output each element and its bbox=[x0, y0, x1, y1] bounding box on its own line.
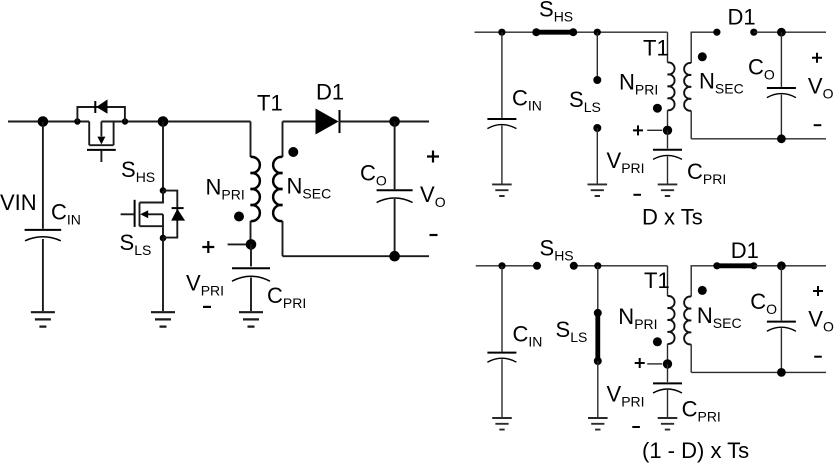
wire output bottom rail top-right bbox=[691, 138, 826, 140]
svg-text:SHS: SHS bbox=[121, 157, 155, 185]
capacitor CPRI bbox=[232, 244, 270, 311]
terminal dot SHS drain bbox=[74, 118, 80, 124]
label CO top-right bbox=[748, 55, 775, 83]
node SW junction bbox=[158, 116, 169, 127]
svg-text:VIN: VIN bbox=[0, 190, 37, 215]
svg-text:NPRI: NPRI bbox=[206, 174, 245, 202]
phase dot NPRI top-right bbox=[653, 104, 662, 113]
diode SLS body diode bbox=[163, 191, 185, 238]
label D1 top-right bbox=[728, 5, 756, 30]
label T1 bottom-right bbox=[644, 268, 670, 293]
label minus VO bottom-right bbox=[814, 356, 822, 358]
svg-text:D1: D1 bbox=[316, 80, 344, 105]
transformer T1 primary NPRI bbox=[251, 122, 260, 245]
label D x Ts bbox=[642, 205, 703, 230]
svg-text:SLS: SLS bbox=[569, 87, 601, 115]
ground CPRI bbox=[239, 312, 263, 326]
label plus VO bottom-right bbox=[813, 286, 823, 296]
wire D1 to output bottom-right bbox=[754, 265, 826, 267]
transformer T1 primary bottom-right bbox=[668, 266, 675, 364]
label minus VO bbox=[430, 234, 438, 236]
node output bottom junction bbox=[389, 251, 400, 262]
wire SW to SLS drain bbox=[162, 122, 164, 191]
svg-text:T1: T1 bbox=[643, 35, 669, 60]
wire input rail bbox=[8, 121, 89, 123]
diode D1 bbox=[316, 109, 340, 135]
label plus VPRI top-right bbox=[633, 125, 643, 135]
svg-text:NSEC: NSEC bbox=[697, 303, 742, 331]
transistor SLS (low-side MOSFET) bbox=[121, 187, 167, 241]
svg-text:CPRI: CPRI bbox=[687, 159, 726, 187]
svg-text:SLS: SLS bbox=[556, 317, 588, 345]
svg-text:CIN: CIN bbox=[512, 86, 542, 114]
wire VPRI plus lead bottom-right bbox=[647, 363, 662, 365]
phase dot NSEC bbox=[288, 147, 298, 157]
node VPRI junction bottom-right bbox=[663, 359, 672, 368]
svg-text:VO: VO bbox=[420, 182, 446, 210]
node VIN junction bbox=[38, 116, 49, 127]
svg-text:SHS: SHS bbox=[540, 236, 574, 264]
svg-text:VPRI: VPRI bbox=[607, 148, 645, 176]
svg-text:CIN: CIN bbox=[51, 200, 81, 228]
capacitor CIN bbox=[25, 122, 62, 312]
node output bottom junction bottom-right bbox=[777, 368, 786, 377]
phase dot NPRI bottom-right bbox=[653, 337, 662, 346]
switch SLS open bbox=[593, 32, 601, 183]
label SHS bbox=[121, 157, 155, 185]
svg-text:VPRI: VPRI bbox=[186, 270, 224, 298]
node CIN tap top-right bbox=[498, 29, 505, 36]
label plus VPRI bbox=[202, 241, 214, 253]
label VPRI bottom-right bbox=[607, 382, 645, 410]
label SLS top-right bbox=[569, 87, 601, 115]
switch D1 open top-right bbox=[713, 29, 757, 36]
switch D1 closed bottom-right bbox=[713, 262, 757, 269]
label SHS top-right bbox=[539, 0, 573, 24]
transistor SHS (high-side MOSFET) bbox=[87, 122, 116, 163]
node output top junction top-right bbox=[777, 28, 786, 37]
svg-text:CO: CO bbox=[360, 161, 387, 189]
svg-text:NSEC: NSEC bbox=[287, 174, 332, 202]
node SLS tap top-right bbox=[594, 29, 601, 36]
capacitor CO top-right bbox=[767, 32, 796, 139]
svg-text:D1: D1 bbox=[731, 238, 759, 263]
wire input rail bottom-right right bbox=[574, 265, 668, 267]
wire switch node rail bbox=[101, 121, 250, 123]
ground SLS bbox=[151, 312, 175, 326]
label T1 top-right bbox=[643, 35, 669, 60]
wire input rail top-right bbox=[475, 31, 668, 33]
label CIN top-right bbox=[512, 86, 542, 114]
label CPRI bbox=[267, 283, 306, 311]
phase dot NSEC bottom-right bbox=[698, 286, 707, 295]
node VPRI junction top-right bbox=[663, 126, 672, 135]
svg-text:D x Ts: D x Ts bbox=[642, 205, 703, 230]
label NPRI top-right bbox=[619, 70, 658, 98]
ground CPRI bottom-right bbox=[658, 418, 678, 430]
wire SLS source to ground bbox=[162, 238, 164, 311]
transformer T1 secondary NSEC bbox=[273, 122, 282, 257]
terminal dot SHS source bbox=[122, 118, 128, 124]
wire D1 to output top-right bbox=[754, 31, 826, 33]
label SHS bottom-right bbox=[540, 236, 574, 264]
label D1 bbox=[316, 80, 344, 105]
wire output bottom rail bottom-right bbox=[691, 371, 826, 373]
node CIN tap bottom-right bbox=[498, 262, 505, 269]
label minus VPRI bottom-right bbox=[632, 426, 640, 428]
node output top junction bbox=[389, 116, 400, 127]
switch SHS closed bbox=[532, 28, 577, 36]
node SLS tap bottom-right bbox=[594, 262, 601, 269]
ground CPRI top-right bbox=[658, 184, 678, 196]
node output bottom junction top-right bbox=[777, 134, 786, 143]
wire input rail bottom-right left bbox=[476, 265, 537, 267]
svg-text:CO: CO bbox=[750, 289, 777, 317]
svg-text:CPRI: CPRI bbox=[267, 283, 306, 311]
svg-text:VO: VO bbox=[808, 73, 834, 101]
label SLS bbox=[120, 230, 152, 258]
ground SLS top-right bbox=[588, 184, 608, 196]
transformer T1 secondary bottom-right bbox=[684, 266, 717, 373]
label NSEC bbox=[287, 174, 332, 202]
phase dot NSEC top-right bbox=[698, 52, 707, 61]
capacitor CO bbox=[377, 122, 413, 257]
svg-text:VPRI: VPRI bbox=[607, 382, 645, 410]
label CPRI bottom-right bbox=[682, 396, 721, 424]
label (1-D) x Ts bbox=[642, 438, 749, 463]
svg-text:SLS: SLS bbox=[120, 230, 152, 258]
ground SLS bottom-right bbox=[588, 418, 608, 430]
diode SHS body diode bbox=[77, 99, 125, 121]
svg-text:NSEC: NSEC bbox=[699, 69, 744, 97]
svg-text:T1: T1 bbox=[257, 90, 283, 115]
wire output bottom rail bbox=[283, 255, 430, 257]
label CPRI top-right bbox=[687, 159, 726, 187]
svg-text:NPRI: NPRI bbox=[618, 304, 657, 332]
wire VPRI plus lead top-right bbox=[647, 129, 662, 131]
label D1 bottom-right bbox=[731, 238, 759, 263]
label CIN bbox=[51, 200, 81, 228]
label minus VPRI top-right bbox=[633, 194, 641, 196]
wire NSEC top to D1 bbox=[283, 121, 316, 123]
label CIN bottom-right bbox=[513, 321, 543, 349]
label CO bbox=[360, 161, 387, 189]
label VO bbox=[420, 182, 446, 210]
ground CIN bottom-right bbox=[492, 418, 512, 430]
label NSEC bottom-right bbox=[697, 303, 742, 331]
label VO bottom-right bbox=[808, 307, 834, 335]
capacitor CIN bottom-right bbox=[487, 266, 516, 417]
capacitor CPRI top-right bbox=[653, 130, 682, 183]
label SLS bottom-right bbox=[556, 317, 588, 345]
wire D1 to output bbox=[339, 121, 429, 123]
label plus VO top-right bbox=[812, 53, 822, 63]
svg-text:T1: T1 bbox=[644, 268, 670, 293]
label minus VO top-right bbox=[814, 124, 822, 126]
label VIN bbox=[0, 190, 37, 215]
svg-text:CO: CO bbox=[748, 55, 775, 83]
switch SHS open bbox=[533, 262, 578, 270]
node VPRI junction bbox=[246, 239, 257, 250]
capacitor CIN top-right bbox=[487, 32, 516, 183]
label VO top-right bbox=[808, 73, 834, 101]
svg-text:SHS: SHS bbox=[539, 0, 573, 24]
label VPRI bbox=[186, 270, 224, 298]
label VPRI top-right bbox=[607, 148, 645, 176]
label CO bottom-right bbox=[750, 289, 777, 317]
transformer T1 primary top-right bbox=[668, 32, 675, 130]
ground CIN top-right bbox=[492, 184, 512, 196]
phase dot NPRI bbox=[234, 212, 244, 222]
svg-text:(1 - D) x Ts: (1 - D) x Ts bbox=[642, 438, 749, 463]
label plus VO bbox=[427, 151, 439, 163]
label minus VPRI bbox=[203, 306, 211, 308]
label plus VPRI bottom-right bbox=[635, 358, 645, 368]
node output top junction bottom-right bbox=[777, 261, 786, 270]
label T1 bbox=[257, 90, 283, 115]
label NPRI bottom-right bbox=[618, 304, 657, 332]
label NSEC top-right bbox=[699, 69, 744, 97]
svg-text:VO: VO bbox=[808, 307, 834, 335]
svg-text:D1: D1 bbox=[728, 5, 756, 30]
ground CIN bbox=[31, 312, 55, 326]
transformer T1 secondary top-right bbox=[684, 32, 717, 139]
svg-text:NPRI: NPRI bbox=[619, 70, 658, 98]
wire VPRI plus lead bbox=[228, 243, 247, 245]
label NPRI bbox=[206, 174, 245, 202]
svg-text:CPRI: CPRI bbox=[682, 396, 721, 424]
capacitor CPRI bottom-right bbox=[653, 364, 682, 417]
switch SLS closed bbox=[594, 266, 602, 417]
capacitor CO bottom-right bbox=[767, 266, 796, 373]
svg-text:CIN: CIN bbox=[513, 321, 543, 349]
